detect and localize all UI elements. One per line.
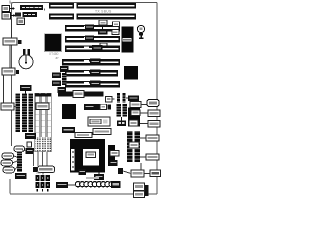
slot row 3	[65, 25, 120, 32]
ISA slot 1	[49, 3, 136, 9]
right bar of socket	[108, 145, 119, 166]
white boxes right of rows 3-4	[113, 22, 120, 27]
AT power connector P1	[75, 182, 114, 187]
cache chip U3	[124, 66, 138, 79]
bottom left cluster	[1, 142, 34, 179]
white box above socket 2	[93, 129, 111, 135]
left callout C	[1, 103, 16, 110]
black label left of chipF bottom	[62, 127, 75, 133]
slot row 4	[65, 36, 120, 43]
white rounded callout w connector icon	[33, 166, 55, 172]
domino texture on connector bottoms	[35, 137, 51, 152]
svg-text:J10: J10	[36, 171, 41, 175]
chipset U1 (QFP)	[44, 33, 62, 52]
header block J8	[117, 104, 127, 127]
slot row 6	[62, 59, 120, 66]
jumper cluster JP1-JP4	[52, 56, 69, 93]
board outline	[10, 3, 157, 195]
jumper row JP5-JP6	[106, 93, 130, 103]
keyboard controller U4	[62, 104, 76, 119]
slot row 5	[65, 45, 120, 52]
multi I/O headers J9	[127, 131, 159, 162]
CPU socket (ZIF) U5	[70, 133, 105, 173]
white label on connectors	[36, 103, 49, 110]
label: keyboard	[20, 5, 45, 11]
label cluster JP7	[84, 104, 111, 110]
keyboard DIN icon top right	[137, 25, 144, 39]
white callout above row 3	[99, 20, 107, 25]
slot row 8	[65, 81, 120, 88]
ISA slot 2	[49, 14, 136, 20]
mouse connector icon	[2, 13, 15, 20]
front panel header J10	[35, 171, 50, 192]
svg-text:TX SBUS: TX SBUS	[95, 10, 112, 14]
SIMM sockets SIMM1-SIMM3	[16, 94, 34, 133]
black callout between rows 3-4	[98, 26, 108, 35]
switch block SW1 with callouts	[128, 96, 160, 128]
power connector label	[56, 182, 76, 188]
left callout B	[2, 68, 19, 103]
IDE/FDD connectors J4-J6	[35, 94, 51, 152]
battery BT1	[19, 49, 33, 69]
label below SIMMs	[25, 133, 36, 139]
feature connector J7	[58, 91, 104, 98]
bottom right cluster	[118, 163, 161, 177]
power end label	[111, 181, 121, 188]
top-left step	[10, 1, 13, 4]
wires from connectors down	[34, 152, 48, 175]
keyboard connector icon	[2, 6, 14, 12]
white box above socket 1	[88, 117, 110, 126]
label: mouse	[15, 12, 37, 17]
left callout A	[3, 19, 21, 68]
white callout below row 4	[100, 43, 107, 47]
small box below labels	[17, 18, 25, 25]
svg-text:JP: JP	[55, 56, 59, 60]
BIOS ROM chip U2	[122, 27, 134, 53]
label SIMM bank	[20, 85, 32, 95]
slot row 7	[65, 70, 118, 77]
socket bottom labels	[79, 169, 105, 180]
text above power connector	[86, 177, 99, 179]
